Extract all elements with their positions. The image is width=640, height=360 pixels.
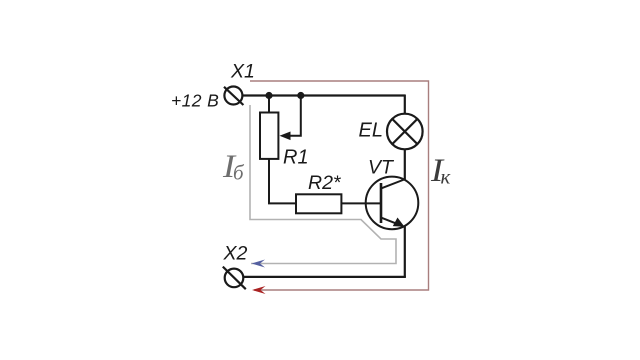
terminal X2 bbox=[223, 267, 246, 290]
wire: corner down to lamp bbox=[404, 95, 406, 114]
wiper: wire from dot2 down and arrow into R1 bbox=[288, 96, 301, 136]
label I_b (base current) bbox=[222, 148, 245, 185]
node junction dot 1 bbox=[265, 92, 272, 99]
collector line bbox=[381, 179, 406, 189]
svg-text:X2: X2 bbox=[223, 242, 248, 264]
svg-text:R1: R1 bbox=[283, 146, 309, 168]
svg-text:R2*: R2* bbox=[308, 172, 342, 194]
node junction dot 2 bbox=[297, 92, 304, 99]
svg-text:б: б bbox=[233, 161, 245, 185]
transistor VT bbox=[366, 177, 419, 230]
terminal X1 bbox=[224, 87, 243, 106]
svg-text:+12 В: +12 В bbox=[171, 90, 219, 110]
potentiometer R1 body bbox=[260, 113, 278, 159]
svg-text:VT: VT bbox=[368, 156, 395, 178]
wire: R1 bottom to R2 left bbox=[269, 159, 296, 204]
wire: R2 right to transistor base bbox=[341, 202, 381, 204]
wire: lamp to transistor collector bbox=[404, 149, 406, 181]
svg-text:X1: X1 bbox=[230, 61, 255, 83]
svg-text:EL: EL bbox=[359, 119, 383, 141]
red current arrow at X2 bbox=[252, 286, 266, 294]
base bar bbox=[380, 183, 383, 223]
label I_k (collector current) bbox=[430, 151, 451, 188]
blue current arrow at X2 bbox=[252, 260, 266, 268]
resistor R2 body bbox=[296, 194, 341, 213]
svg-text:к: к bbox=[441, 165, 451, 189]
lamp EL bbox=[387, 114, 423, 150]
wire: bottom wire to X2 bbox=[244, 276, 406, 278]
emitter line with arrow bbox=[381, 218, 403, 227]
wire: I_k red loop (top and right side, to X2) bbox=[250, 81, 429, 290]
wire: I_b gray loop bbox=[250, 105, 396, 264]
wire: dot1 down to R1 top bbox=[268, 96, 270, 113]
wire: transistor emitter down bbox=[404, 225, 406, 277]
wire: X1 to top-right corner bbox=[243, 94, 406, 96]
